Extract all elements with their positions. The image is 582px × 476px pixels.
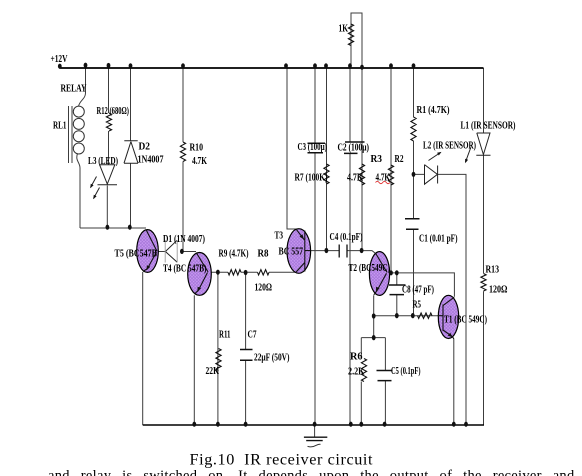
svg-text:C7: C7 xyxy=(248,329,257,341)
svg-text:C2 (100µ): C2 (100µ) xyxy=(338,142,370,153)
svg-text:R6: R6 xyxy=(350,350,363,362)
svg-text:R10: R10 xyxy=(190,141,204,153)
svg-text:and relay is switched on. It d: and relay is switched on. It depends upo… xyxy=(48,468,582,476)
svg-text:R3: R3 xyxy=(371,153,383,165)
svg-text:4.7K: 4.7K xyxy=(347,171,363,183)
svg-text:D1 (1N 4007): D1 (1N 4007) xyxy=(163,234,205,245)
svg-text:BC 557: BC 557 xyxy=(279,246,304,258)
svg-text:L3 (LED): L3 (LED) xyxy=(88,156,118,167)
svg-text:R2: R2 xyxy=(395,153,404,165)
svg-text:4.7K: 4.7K xyxy=(192,155,207,167)
svg-text:T2 (BC549C): T2 (BC549C) xyxy=(349,263,391,274)
svg-text:1K: 1K xyxy=(339,23,349,35)
svg-text:C4 (0.1pF): C4 (0.1pF) xyxy=(330,232,363,243)
svg-text:T4 (BC 547B): T4 (BC 547B) xyxy=(163,264,207,275)
svg-text:22K: 22K xyxy=(206,365,220,377)
svg-text:RL1: RL1 xyxy=(53,120,67,132)
svg-text:D2: D2 xyxy=(139,140,151,152)
svg-text:L1 (IR SENSOR): L1 (IR SENSOR) xyxy=(461,120,516,131)
svg-text:2.2K: 2.2K xyxy=(348,366,365,378)
svg-text:R11: R11 xyxy=(219,329,231,341)
svg-text:C8 (47 pF): C8 (47 pF) xyxy=(402,285,434,296)
svg-text:R9 (4.7K): R9 (4.7K) xyxy=(219,248,249,259)
svg-text:C1 (0.01 pF): C1 (0.01 pF) xyxy=(419,233,458,244)
svg-text:C3 (100µ): C3 (100µ) xyxy=(298,142,328,153)
svg-text:T3: T3 xyxy=(275,230,284,242)
svg-text:120Ω: 120Ω xyxy=(489,284,508,296)
svg-text:C5 (0.1pF): C5 (0.1pF) xyxy=(391,366,421,377)
svg-text:120Ω: 120Ω xyxy=(255,282,273,294)
svg-text:22µF (50V): 22µF (50V) xyxy=(254,353,290,364)
svg-text:R5: R5 xyxy=(413,298,422,310)
svg-text:R13: R13 xyxy=(486,264,500,276)
svg-text:1N4007: 1N4007 xyxy=(138,155,164,166)
svg-text:R12 (680Ω): R12 (680Ω) xyxy=(97,106,130,117)
svg-text:T1 (BC 549C): T1 (BC 549C) xyxy=(444,315,487,326)
svg-text:R7 (100K): R7 (100K) xyxy=(295,173,328,184)
svg-text:Fig.10 IR receiver circuit: Fig.10 IR receiver circuit xyxy=(190,451,374,469)
svg-text:R1 (4.7K): R1 (4.7K) xyxy=(417,105,450,116)
svg-text:RELAY: RELAY xyxy=(61,83,87,95)
svg-text:T5 (BC547B: T5 (BC547B xyxy=(115,248,158,259)
svg-text:R8: R8 xyxy=(258,247,269,259)
svg-text:L2 (IR SENSOR): L2 (IR SENSOR) xyxy=(423,141,476,152)
svg-text:+12V: +12V xyxy=(51,53,68,65)
